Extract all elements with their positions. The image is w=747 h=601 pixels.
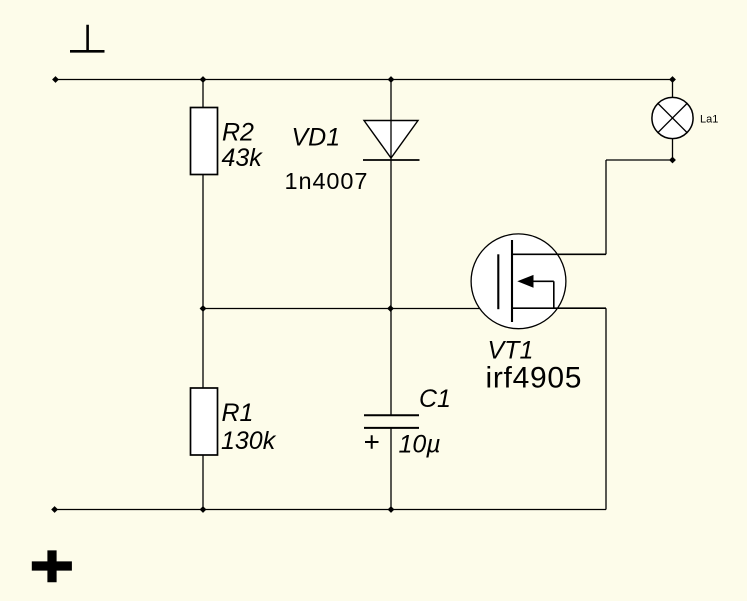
wire rail to lamp [672, 80, 674, 98]
node bottom R1 [200, 506, 207, 513]
channel plate [511, 240, 513, 322]
gate plate [497, 254, 499, 309]
wire mid to C1 [390, 309, 392, 416]
diode VD1 cathode bar [363, 159, 420, 161]
node bottom C1 [388, 506, 395, 513]
wire source drop [605, 308, 607, 509]
svg-text:43k: 43k [222, 144, 264, 172]
wire VD1 to mid rail [390, 160, 392, 309]
arrow [517, 275, 533, 288]
node top-left [52, 76, 59, 83]
wire rail to R2 [202, 80, 204, 109]
resistor R1 [191, 388, 218, 455]
wire corner to drain drop [606, 159, 673, 161]
node top VD1 [388, 76, 395, 83]
wire rail to VD1 [390, 80, 392, 161]
node bottom-left [51, 506, 58, 513]
resistor R2 [191, 108, 218, 175]
wire top rail [56, 79, 673, 81]
capacitor C1 [364, 414, 419, 416]
wire lamp to corner [672, 139, 674, 160]
svg-text:10µ: 10µ [399, 431, 441, 459]
svg-text:C1: C1 [419, 385, 451, 413]
svg-text:1n4007: 1n4007 [285, 168, 369, 194]
wire C1 to bottom rail [390, 428, 392, 510]
svg-text:R1: R1 [222, 399, 254, 427]
svg-text:R2: R2 [222, 119, 254, 147]
svg-text:VD1: VD1 [292, 123, 341, 151]
node lamp corner [669, 157, 676, 164]
svg-text:130k: 130k [221, 427, 277, 455]
node mid gate [387, 305, 394, 312]
wire R1 to bottom rail [202, 455, 204, 510]
drain lead [512, 253, 606, 255]
C1 polarity plus [365, 435, 379, 448]
svg-text:irf4905: irf4905 [486, 361, 583, 394]
node mid R2R1 [200, 305, 207, 312]
diode VD1 [364, 121, 418, 159]
ground [70, 25, 105, 52]
wire mid rail [203, 308, 498, 310]
node top lamp [669, 76, 676, 83]
transistor VT1 [471, 234, 566, 329]
lamp La1 [652, 97, 693, 138]
source lead bottom [512, 307, 606, 309]
wire bottom rail [55, 509, 606, 511]
plus terminal [32, 550, 72, 582]
wire R2 to R1 [202, 174, 204, 388]
node top R2 [200, 76, 207, 83]
wire drain drop [605, 160, 607, 254]
svg-text:La1: La1 [700, 114, 718, 126]
